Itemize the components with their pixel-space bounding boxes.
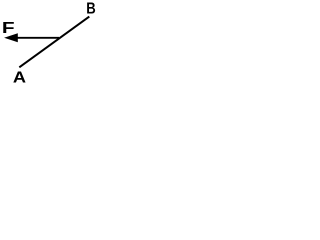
wire: rod AB [19,17,89,68]
svg-text:A: A [13,68,26,85]
label F [2,18,15,36]
wire: force arrow shaft [16,37,59,39]
svg-text:B: B [86,0,95,17]
label A [13,68,26,87]
svg-text:F: F [2,18,15,36]
arrowhead of force F [4,33,18,42]
label B [86,0,95,17]
